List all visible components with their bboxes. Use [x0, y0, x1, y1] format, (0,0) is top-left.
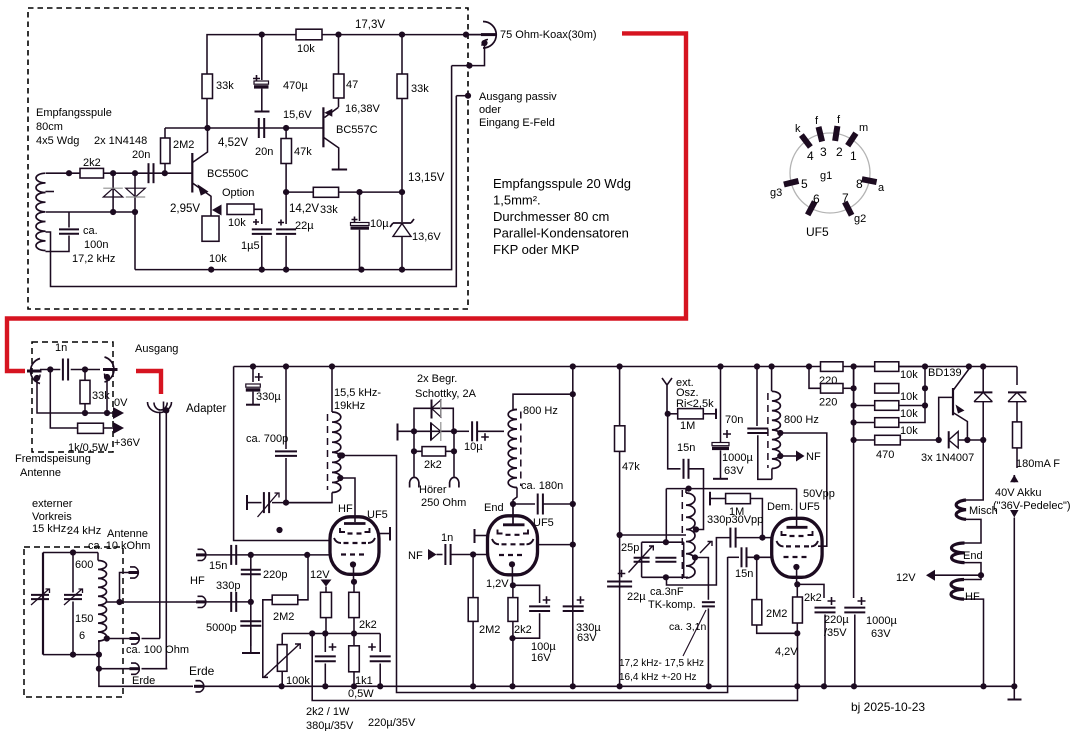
diode vertical 3 (to battery) [1016, 367, 1018, 386]
svg-text:220p: 220p [263, 569, 287, 581]
resistor 2M2 (End grid leak) [472, 555, 474, 687]
svg-text:HF: HF [338, 503, 353, 515]
ext Osz antenna input [662, 378, 672, 414]
connector HF (to receiver) [198, 596, 206, 607]
svg-text:Vorkreis: Vorkreis [32, 511, 72, 523]
capacitor 15n (HF input) [230, 545, 232, 565]
resistors 10k x4 [875, 362, 899, 372]
capacitor 220p (divider) [250, 555, 252, 602]
diode 3x 1N4007 (series path) [948, 431, 950, 448]
svg-text:330p30Vpp: 330p30Vpp [707, 514, 763, 526]
variable capacitor 2 [72, 553, 74, 655]
wire main ground rail [202, 685, 1014, 687]
svg-text:ca. 10 kOhm: ca. 10 kOhm [88, 540, 150, 552]
coax connector 75 Ohm output [466, 34, 481, 36]
inductor 800Hz output transformer (End) [508, 410, 517, 488]
svg-text:16V: 16V [531, 652, 551, 664]
svg-text:20n: 20n [255, 146, 273, 158]
resistor 2M2 (HF grid leak) [272, 595, 298, 604]
svg-text:100k: 100k [286, 675, 310, 687]
End tube cathode [509, 561, 515, 567]
wire 47k node to osc coil [620, 534, 686, 536]
svg-text:1n: 1n [441, 532, 453, 544]
diode vertical 2 (to Misch chain) [982, 367, 984, 386]
svg-text:Fremdspeisung: Fremdspeisung [15, 453, 91, 465]
wire 0V return line [37, 378, 113, 413]
socket pin 5 [784, 181, 799, 185]
svg-text:externer: externer [32, 498, 73, 510]
svg-text:330p: 330p [216, 580, 240, 592]
trimmer box 25p + cap [642, 542, 688, 577]
red coax cable route (Ausgang to Adapter) [136, 371, 161, 394]
svg-text:BC550C: BC550C [207, 168, 249, 180]
svg-text:75 Ohm-Koax(30m): 75 Ohm-Koax(30m) [500, 29, 597, 41]
terminal T-bar (limiter input) [397, 424, 399, 441]
fuse 180mA F [1013, 422, 1022, 448]
svg-text:15 kHz-: 15 kHz- [32, 523, 70, 535]
resistor 220 (rail series) [821, 362, 844, 372]
tube socket UF5 pinout circle [790, 133, 870, 213]
svg-text:Dem.: Dem. [767, 501, 793, 513]
svg-text:k: k [795, 123, 801, 135]
svg-text:10k: 10k [900, 408, 918, 420]
svg-text:330µ: 330µ [256, 391, 281, 403]
svg-text:80cm: 80cm [36, 121, 63, 133]
svg-text:2M2: 2M2 [173, 139, 194, 151]
svg-text:10k: 10k [297, 43, 315, 55]
capacitor ca.3nF TK-komp [695, 558, 708, 600]
wire BC557C base node 15,6V [207, 127, 323, 129]
resistor 33k (right column) [401, 35, 403, 193]
svg-text:14,2V: 14,2V [289, 203, 319, 215]
socket pin 4 [801, 135, 810, 147]
red coax cable route (top to Fremdspeisung) [7, 33, 686, 371]
choke HF [964, 575, 981, 579]
svg-text:13,15V: 13,15V [408, 172, 445, 184]
HF tube cathode [350, 561, 356, 567]
svg-text:1000µ: 1000µ [722, 452, 753, 464]
connector ca. 100 Ohm tap [106, 638, 130, 640]
wire 14,2V node line [286, 191, 402, 193]
junction rail-47 [335, 31, 341, 37]
potentiometer 100k [277, 645, 287, 672]
wires adapter to Vorkreis connectors [159, 412, 161, 639]
svg-text:2k2: 2k2 [424, 459, 442, 471]
svg-text:12V: 12V [896, 572, 916, 584]
svg-text:4,52V: 4,52V [218, 137, 248, 149]
svg-text:2: 2 [836, 145, 843, 159]
svg-text:Ausgang: Ausgang [135, 343, 178, 355]
svg-text:22µ: 22µ [295, 220, 314, 232]
variable arrow over osc coil [700, 542, 712, 554]
capacitor 380u/35V [324, 634, 326, 653]
capacitor 220u/35V (HF) [379, 634, 381, 653]
arrow +36V input [113, 422, 124, 434]
svg-text:Eingang E-Feld: Eingang E-Feld [479, 117, 555, 129]
svg-text:1M: 1M [680, 420, 695, 432]
wire HF coil tap to feedback line [340, 456, 727, 693]
wire coil lower tap to bottom return [46, 96, 457, 287]
svg-text:40V Akku: 40V Akku [995, 487, 1041, 499]
svg-text:33k: 33k [216, 80, 234, 92]
resistor 33k (divider) [313, 187, 338, 197]
socket pin 7 [845, 202, 852, 215]
capacitor 100u 16V (cathode bypass) [513, 585, 540, 603]
diode Schottky upper (pointing left) [431, 400, 433, 419]
wire osc top line [666, 488, 796, 490]
capacitor ca. 180n [513, 503, 535, 505]
svg-text:m: m [859, 122, 868, 134]
arrow NF output [780, 455, 796, 457]
resistor 33k (BC550 collector) [206, 98, 208, 128]
svg-text:15n: 15n [209, 560, 227, 572]
wire main HT rail (lower circuit) [234, 366, 1017, 368]
svg-text:50Vpp: 50Vpp [803, 488, 835, 500]
coax connector Ausgang [105, 357, 114, 382]
svg-text:10k: 10k [900, 391, 918, 403]
svg-text:2x Begr.: 2x Begr. [417, 373, 457, 385]
svg-text:g3: g3 [770, 187, 782, 199]
svg-text:FKP oder MKP: FKP oder MKP [493, 242, 579, 257]
svg-text:ca. 100 Ohm: ca. 100 Ohm [126, 644, 189, 656]
transistor BC550C [191, 153, 193, 193]
capacitor 1000u 63V [720, 367, 722, 443]
svg-text:Erde: Erde [132, 675, 155, 687]
capacitor 330p [230, 592, 232, 612]
svg-text:250 Ohm: 250 Ohm [421, 497, 466, 509]
svg-text:15n: 15n [735, 568, 753, 580]
svg-text:0V: 0V [114, 397, 128, 409]
wire cathode to 220u [797, 584, 824, 598]
svg-text:800 Hz: 800 Hz [784, 414, 819, 426]
wire coil tap line [46, 211, 135, 213]
HF tube grid3 dashes [341, 553, 368, 555]
resistor 2k2 (Hoerer) [414, 450, 454, 452]
svg-text:1µ5: 1µ5 [241, 240, 260, 252]
svg-text:15,5 kHz-: 15,5 kHz- [334, 387, 381, 399]
Dem tube anode bar [787, 526, 808, 529]
svg-text:a: a [878, 182, 885, 194]
svg-text:2,95V: 2,95V [170, 203, 200, 215]
capacitor 330u 63V (decoupling) [577, 596, 585, 604]
svg-text:47k: 47k [294, 146, 312, 158]
svg-text:17,3V: 17,3V [355, 19, 385, 31]
junction output passive [456, 95, 468, 97]
svg-text:33k: 33k [411, 83, 429, 95]
wire HF input line 2 (330p) [205, 601, 251, 603]
capacitor 1000u 63V (main) [853, 367, 855, 599]
svg-text:NF: NF [806, 451, 821, 463]
wire bottom ground rail (top block) [135, 66, 452, 270]
capacitor 15n (dem grid) [728, 556, 739, 558]
wire HF coil tap to anode [340, 478, 355, 522]
capacitor 20n (input) [148, 163, 150, 183]
wire tuning cap top/bottom [43, 552, 98, 554]
svg-text:bj 2025-10-23: bj 2025-10-23 [851, 700, 925, 714]
variable capacitor (HF trim) [246, 495, 248, 510]
inductor 800Hz Dem transformer [771, 367, 773, 392]
svg-text:10k: 10k [209, 253, 227, 265]
svg-text:17,2 kHz: 17,2 kHz [72, 253, 115, 265]
Dem tube grid1 [782, 531, 813, 535]
svg-text:2k2: 2k2 [83, 157, 101, 169]
diode Schottky lower (pointing right) [431, 423, 441, 440]
connectors Hoerer 250 Ohm [413, 451, 415, 476]
svg-text:6: 6 [813, 192, 820, 206]
HF tube anode bar [344, 522, 366, 525]
svg-text:47: 47 [346, 79, 358, 91]
dashed enclosure Fremdspeisung box [32, 342, 113, 452]
resistor 10k (series in rail) [296, 29, 322, 40]
svg-text:63V: 63V [724, 465, 744, 477]
svg-text:1000µ: 1000µ [866, 615, 897, 627]
svg-text:25p: 25p [621, 542, 639, 554]
svg-text:470: 470 [876, 449, 894, 461]
svg-text:5000p: 5000p [206, 622, 237, 634]
wire HF tube grid3 input line [204, 554, 331, 556]
resistor 1M (dem grid) [709, 492, 711, 506]
svg-text:20n: 20n [132, 149, 150, 161]
inductor Vorkreis coil 600/150/6 [98, 561, 107, 642]
svg-text:2k2: 2k2 [359, 619, 377, 631]
capacitor 470u electrolytic [261, 35, 263, 80]
svg-text:End: End [484, 502, 504, 514]
svg-text:380µ/35V: 380µ/35V [306, 720, 354, 731]
svg-text:16,38V: 16,38V [345, 103, 381, 115]
antenna adapter connector symbol [148, 402, 172, 413]
svg-text:63V: 63V [871, 628, 891, 640]
svg-text:100n: 100n [84, 239, 108, 251]
svg-text:12V: 12V [310, 569, 330, 581]
End tube grid1 stub [474, 529, 476, 543]
capacitor 10u electrolytic [359, 192, 361, 221]
socket pin 1 [848, 133, 856, 146]
wire main vertical (570) to ground [572, 367, 574, 687]
wire osc left branch [665, 489, 667, 543]
svg-text:TK-komp.: TK-komp. [648, 599, 696, 611]
resistor 33k (bleeder) [84, 370, 86, 414]
tube HF pentode UF5 [330, 517, 379, 575]
resistor 1k1 0,5W [353, 634, 355, 687]
svg-text:Durchmesser 80 cm: Durchmesser 80 cm [493, 209, 609, 224]
capacitor 1u5 [254, 209, 262, 224]
tube End pentode UF5 [488, 516, 538, 575]
svg-text:8: 8 [856, 177, 863, 191]
capacitor ca. 700p [285, 367, 287, 450]
resistor 220 (second) [821, 384, 844, 394]
svg-text:5: 5 [801, 177, 808, 191]
svg-text:33k: 33k [320, 204, 338, 216]
Dem tube grid2 winged [777, 541, 819, 546]
svg-text:63V: 63V [577, 632, 597, 644]
svg-text:10µ: 10µ [370, 218, 389, 230]
svg-text:BC557C: BC557C [336, 124, 378, 136]
wire HF cathode bias rail [282, 633, 380, 635]
variable capacitor 1 (tuning) [42, 553, 44, 655]
Dem tube cathode [793, 564, 799, 570]
inductor Empfangsspule (receive loop) [36, 173, 46, 250]
inductor 15,5kHz-19kHz resonant coil [331, 367, 333, 413]
inductor Oszillator coil [685, 489, 687, 493]
wire left column to HF tube g2 [234, 367, 330, 541]
connector HF input (open) [198, 549, 206, 560]
HF tube grid1 (dashed with brackets) [340, 528, 370, 532]
wire ground return to Erde jack [99, 669, 193, 687]
zener diode 13,6V [401, 192, 403, 222]
svg-text:Erde: Erde [189, 664, 215, 678]
svg-text:1,2V: 1,2V [486, 578, 509, 590]
svg-text:7: 7 [842, 191, 849, 205]
resistor 2k2 (HF cathode) [353, 582, 355, 634]
capacitor 5000p [250, 602, 252, 646]
svg-text:BD139: BD139 [928, 367, 962, 379]
End tube grid1 [498, 530, 529, 534]
svg-text:1: 1 [850, 149, 857, 163]
resistor 10k (BC550 emitter) [202, 216, 219, 241]
resistor 2M2 (Dem) [757, 557, 798, 633]
capacitor 330p (dem) [667, 538, 731, 585]
capacitor 22u (osc) [618, 570, 626, 578]
svg-text:180mA F: 180mA F [1016, 458, 1060, 470]
socket pin 8 [862, 179, 877, 182]
svg-text:6: 6 [79, 630, 85, 642]
svg-text:0,5W: 0,5W [348, 688, 374, 700]
svg-text:220: 220 [819, 397, 837, 409]
choke Misch [956, 500, 966, 519]
resistor 2k2 (End cathode) [512, 585, 514, 686]
svg-text:2k2: 2k2 [804, 592, 822, 604]
svg-text:g1: g1 [820, 170, 832, 182]
svg-text:47k: 47k [622, 461, 640, 473]
svg-text:2M2: 2M2 [273, 611, 294, 623]
connector Antenne tap [130, 567, 138, 578]
svg-text:600: 600 [75, 559, 93, 571]
svg-text:15,6V: 15,6V [283, 109, 312, 121]
wire top supply rail 17,3V [207, 35, 482, 74]
transistor BC557C [322, 107, 324, 147]
wire limiter nodes [414, 430, 454, 432]
svg-text:1n: 1n [55, 342, 67, 354]
capacitor 70n [756, 367, 758, 427]
svg-text:("36V-Pedelec"): ("36V-Pedelec") [993, 500, 1071, 512]
Dem tube anode lead from 50Vpp line [796, 489, 798, 527]
svg-text:4x5 Wdg: 4x5 Wdg [36, 135, 79, 147]
resistor 1k/0,5W feed [50, 370, 77, 429]
battery 40V Akku connection arrows [1016, 448, 1018, 468]
junction rail-output [463, 31, 469, 37]
arrow 12V supply out [935, 574, 981, 576]
tube Dem pentode UF5 [772, 518, 822, 577]
svg-text:22µ: 22µ [627, 591, 646, 603]
resistor 47 (BC557 emitter) [338, 35, 340, 107]
resistor 2M2 (BC550 feedback) [164, 128, 166, 173]
capacitor 15n (osc coupling) [668, 414, 681, 469]
wire HF tap line [107, 601, 197, 603]
capacitor ca.100n resonance [68, 212, 70, 228]
capacitor 22u [285, 192, 287, 224]
svg-text:800 Hz: 800 Hz [523, 405, 558, 417]
svg-text:70n: 70n [725, 414, 743, 426]
svg-text:220µ: 220µ [824, 614, 849, 626]
svg-text:2M2: 2M2 [766, 608, 787, 620]
svg-text:NF: NF [408, 550, 423, 562]
svg-text:2x 1N4148: 2x 1N4148 [94, 135, 147, 147]
Dem tube grid3 dashes [784, 556, 811, 558]
svg-text:2k2: 2k2 [514, 624, 532, 636]
svg-text:Parallel-Kondensatoren: Parallel-Kondensatoren [493, 226, 629, 241]
svg-text:Adapter: Adapter [186, 403, 226, 415]
resistor 2k2 (Dem cathode) [796, 584, 798, 633]
svg-text:Ausgang passiv: Ausgang passiv [479, 91, 557, 103]
svg-text:Option: Option [222, 187, 254, 199]
coax connector input (from red cable) [31, 359, 40, 384]
svg-text:g2: g2 [854, 213, 866, 225]
svg-text:HF: HF [965, 591, 980, 603]
dashed enclosure externer Vorkreis box [24, 547, 123, 697]
svg-text:13,6V: 13,6V [412, 231, 441, 243]
svg-text:2M2: 2M2 [479, 624, 500, 636]
dashed enclosure top receiver block [28, 8, 468, 309]
svg-text:24 kHz: 24 kHz [67, 525, 101, 537]
End tube anode bar [512, 504, 514, 524]
svg-text:470µ: 470µ [283, 80, 308, 92]
junction rail-33k right [399, 31, 405, 37]
svg-text:2k2 / 1W: 2k2 / 1W [306, 706, 350, 718]
svg-text:Misch: Misch [969, 505, 998, 517]
capacitor 20n (interstage) [258, 118, 260, 138]
svg-text:4: 4 [807, 149, 814, 163]
socket pin 3 [819, 127, 823, 142]
svg-text:3x 1N4007: 3x 1N4007 [921, 452, 974, 464]
svg-text:Empfangsspule: Empfangsspule [36, 107, 112, 119]
resistor 2k2 (input) [80, 168, 104, 178]
wire dem tap to tube g2 (50Vpp line) [780, 433, 827, 546]
option arrow + resistor 10k [212, 205, 222, 216]
arrow 0V output [113, 407, 124, 419]
HF tube grid1 stub to terminal [379, 533, 391, 535]
wire output tap to lower node [452, 43, 485, 66]
svg-text:End: End [963, 550, 983, 562]
HF tube grid2 (winged) [334, 538, 375, 543]
wire supply column down to Misch choke [966, 440, 983, 500]
svg-text:10k: 10k [900, 369, 918, 381]
resistor 1M (osc input) [665, 411, 671, 417]
svg-text:HF: HF [190, 575, 205, 587]
svg-text:4,2V: 4,2V [775, 646, 798, 658]
capacitor 10u (coupling) [454, 430, 469, 432]
svg-text:220µ/35V: 220µ/35V [368, 717, 416, 729]
svg-text:ca.3nF: ca.3nF [650, 586, 684, 598]
wire End g2 to 570 rail [538, 544, 573, 546]
End tube grid2 winged [492, 539, 534, 544]
svg-text:1k1: 1k1 [355, 675, 373, 687]
svg-text:ca.: ca. [83, 225, 98, 237]
socket pin 6 [808, 202, 815, 215]
capacitor 220u/35V [828, 597, 836, 605]
svg-text:Hörer: Hörer [419, 484, 447, 496]
svg-text:Antenne: Antenne [20, 467, 61, 479]
svg-text:oder: oder [479, 104, 501, 116]
wire bias feedback to Dem stage [312, 633, 797, 700]
resistor (12V dropper) [321, 592, 332, 617]
wire NF input line [428, 549, 437, 560]
svg-text:3: 3 [820, 145, 827, 159]
svg-text:Antenne: Antenne [107, 528, 148, 540]
svg-text:17,2 kHz- 17,5 kHz: 17,2 kHz- 17,5 kHz [619, 658, 704, 669]
svg-text:Empfangsspule 20 Wdg: Empfangsspule 20 Wdg [493, 176, 631, 191]
svg-text:16,4 kHz +-20 Hz: 16,4 kHz +-20 Hz [619, 672, 697, 683]
junction rail-470u [259, 31, 265, 37]
